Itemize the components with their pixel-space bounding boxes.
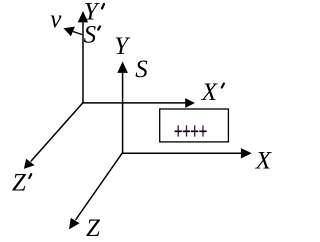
- svg-text:X: X: [201, 79, 219, 106]
- plus charges ++++: [175, 125, 207, 136]
- svg-text:S: S: [135, 56, 148, 83]
- prime of X': [222, 84, 224, 88]
- charged plate rectangle: [160, 109, 229, 142]
- axis Y' (frame S'): [78, 11, 88, 104]
- svg-text:Z: Z: [12, 169, 27, 196]
- prime of S': [98, 27, 100, 30]
- svg-text:v: v: [50, 6, 62, 33]
- velocity arrow v: [63, 27, 83, 37]
- axis X (frame S): [122, 148, 252, 158]
- axis X' (frame S'): [82, 98, 195, 108]
- prime of Y': [102, 4, 104, 9]
- axis Z (frame S): [69, 153, 122, 230]
- prime of Z': [29, 174, 31, 178]
- svg-text:S: S: [84, 22, 97, 49]
- axis Z' (frame S'): [24, 103, 83, 169]
- svg-text:X: X: [255, 148, 273, 175]
- axis Y (frame S): [117, 62, 128, 154]
- svg-text:Z: Z: [86, 215, 101, 242]
